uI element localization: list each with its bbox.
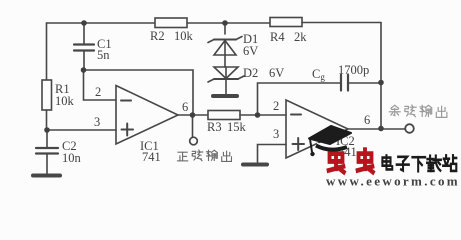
svg-text:2k: 2k	[294, 30, 307, 44]
resistor R2	[155, 18, 187, 28]
label sine output (Chinese)	[177, 150, 231, 161]
op-amp IC2 plus input	[293, 138, 305, 150]
wire top rail right segment	[302, 22, 381, 24]
watermark logo chongchong (red)	[329, 150, 373, 172]
op-amp IC1 triangle	[116, 86, 178, 145]
svg-text:15k: 15k	[227, 120, 247, 134]
wire pin3 IC1	[47, 129, 116, 131]
svg-text:6V: 6V	[269, 66, 284, 80]
node dot IC2 output	[378, 126, 384, 132]
wire left rail	[46, 23, 48, 80]
svg-text:10n: 10n	[62, 151, 82, 165]
svg-text:5n: 5n	[97, 48, 110, 62]
wire IC2 pin3 ground	[258, 145, 287, 163]
ground C2	[33, 174, 60, 178]
watermark graduation cap	[309, 126, 351, 156]
wire sine terminal stub	[192, 115, 194, 137]
node dot R3 right	[255, 112, 261, 118]
node dot R1/C2/pin3	[44, 127, 50, 133]
svg-text:2: 2	[273, 99, 279, 113]
wire diode tap	[224, 23, 226, 34]
ground IC2	[243, 163, 267, 167]
svg-text:3: 3	[273, 127, 279, 141]
svg-text:R4: R4	[270, 30, 285, 44]
wire top rail mid segment	[187, 22, 270, 24]
svg-text:6V: 6V	[243, 44, 258, 58]
op-amp IC2 triangle	[286, 100, 348, 158]
svg-text:1700p: 1700p	[338, 63, 369, 77]
terminal cosine output	[405, 124, 414, 133]
wire top rail left segment	[47, 22, 156, 24]
node dot diode tap	[222, 20, 228, 26]
svg-text:Cg: Cg	[312, 67, 325, 82]
node dot C1 top	[81, 20, 87, 26]
resistor R1	[42, 80, 52, 130]
resistor R3	[208, 111, 240, 120]
svg-text:6: 6	[364, 113, 370, 127]
resistor R4	[270, 18, 302, 27]
svg-text:R2: R2	[150, 29, 165, 43]
wire IC1 output	[178, 114, 208, 116]
node dot C1 bottom	[81, 67, 87, 73]
op-amp IC2 minus input	[291, 114, 301, 116]
op-amp IC1 plus input	[122, 124, 134, 136]
wire D2 to ground	[225, 79, 227, 94]
capacitor C2	[36, 130, 58, 174]
op-amp IC1 minus input	[121, 100, 131, 102]
svg-text:R3: R3	[207, 120, 222, 134]
svg-text:www.eeworm.com: www.eeworm.com	[326, 173, 460, 187]
capacitor C1	[74, 23, 94, 70]
wire IC2 output	[348, 128, 405, 130]
svg-text:6: 6	[182, 100, 188, 114]
wire R3 right to IC2 pin2	[240, 114, 286, 116]
svg-text:741: 741	[142, 150, 161, 164]
diode D1 (zener)	[208, 37, 242, 56]
svg-text:10k: 10k	[55, 94, 75, 108]
svg-text:2: 2	[95, 85, 101, 99]
terminal sine output	[190, 137, 198, 145]
ground diodes	[213, 94, 237, 98]
wire C1 node down to pin2	[84, 70, 117, 100]
svg-text:10k: 10k	[174, 29, 194, 43]
diode D2 (zener)	[208, 67, 244, 82]
node dot IC1 output	[190, 112, 196, 118]
watermark site name (Chinese)	[382, 155, 456, 171]
node dot Cg right	[378, 80, 384, 86]
svg-text:D2: D2	[243, 66, 258, 80]
wire right rail	[380, 23, 382, 129]
wire D1-D2	[224, 55, 226, 67]
svg-text:3: 3	[94, 115, 100, 129]
label cosine output (Chinese)	[389, 105, 447, 117]
wire C1 bottom to feedback	[84, 70, 194, 115]
wire Cg riser	[258, 83, 342, 115]
capacitor Cg	[341, 75, 381, 91]
